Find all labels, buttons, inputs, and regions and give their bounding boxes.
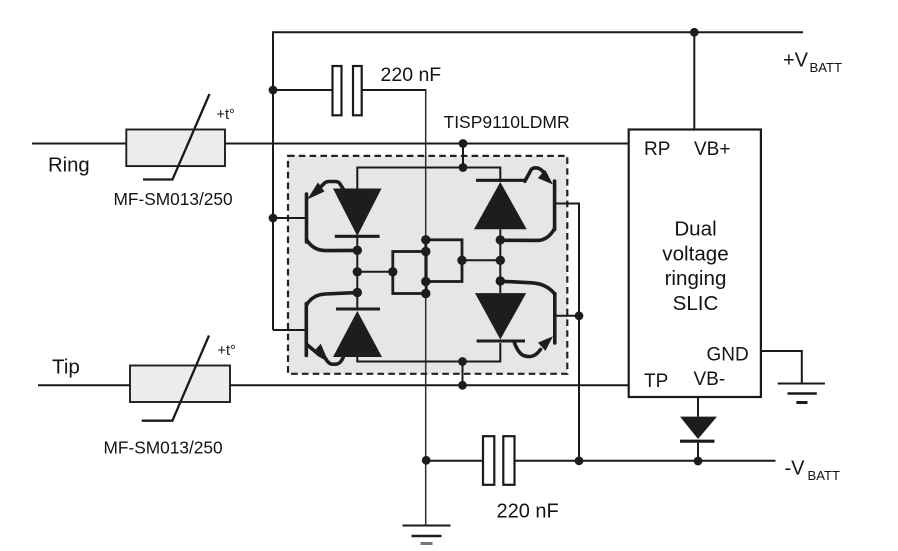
node: right stack gate: [496, 256, 505, 265]
wire: Tip line: [38, 384, 629, 386]
node: centre line a: [421, 235, 430, 244]
node: top rail / cap left: [269, 86, 278, 95]
svg-text:BATT: BATT: [810, 60, 843, 75]
wire: VB+ lead: [693, 32, 695, 129]
svg-text:Ring: Ring: [48, 155, 90, 177]
wire: gate link right: [462, 259, 500, 261]
wire: Ring line: [32, 143, 629, 145]
wire: ring-to-protector link: [462, 144, 464, 168]
svg-text:VB-: VB-: [694, 369, 726, 390]
node: rect B right: [457, 256, 466, 265]
svg-text:MF-SM013/250: MF-SM013/250: [104, 437, 223, 457]
svg-text:220 nF: 220 nF: [497, 501, 559, 523]
node: bottom bus / protector: [458, 357, 467, 366]
node: right branch / lower-right base feed: [575, 311, 584, 320]
thyristor Q4 (bottom-right): [475, 281, 555, 356]
wire: right internal stack: [499, 229, 501, 293]
svg-text:MF-SM013/250: MF-SM013/250: [114, 189, 233, 209]
svg-text:BATT: BATT: [808, 468, 841, 483]
thyristor Q2 (bottom-left): [306, 293, 382, 365]
wire: feed to lower-right base: [555, 315, 579, 317]
thyristor Q1 (top-left): [307, 182, 382, 251]
svg-text:voltage: voltage: [662, 242, 728, 265]
gate network rectangle B: [426, 240, 462, 282]
capacitor C1 220nF top (plates): [333, 66, 342, 115]
wire: left vertical branch x=273: [272, 31, 274, 330]
wire: -VBATT rail right segment: [515, 460, 776, 462]
node: right stack lower: [496, 276, 505, 285]
diode D1 (VB- clamp): [680, 417, 717, 461]
node: left stack upper: [353, 246, 362, 255]
svg-text:GND: GND: [707, 344, 749, 365]
wire: top capacitor left lead: [273, 89, 333, 91]
svg-text:+V: +V: [783, 50, 809, 72]
ground symbol (SLIC GND): [778, 384, 825, 403]
wire: gate link left: [357, 271, 393, 273]
node: left stack lower: [353, 288, 362, 297]
node: tip / protector: [458, 381, 467, 390]
wire: protector-to-tip link: [462, 362, 464, 386]
wire: -VBATT rail left segment: [427, 460, 484, 462]
node: right stack upper: [496, 235, 505, 244]
node: centre line b: [421, 247, 430, 256]
wire: feed to lower-left base: [273, 329, 305, 331]
node: ring / protector: [459, 139, 468, 148]
thermistor RT1 (Ring) MF-SM013/250: [126, 130, 225, 167]
gate network rectangle A: [393, 252, 426, 294]
svg-text:Tip: Tip: [52, 355, 80, 378]
node: top rail / VB+: [690, 28, 699, 37]
wire: internal bottom bus: [357, 343, 500, 362]
node: centre line d: [421, 289, 430, 298]
svg-text:SLIC: SLIC: [673, 292, 719, 315]
thyristor Q3 (top-right): [474, 168, 555, 241]
node: diode / -VBATT: [694, 457, 703, 466]
wire: centre column to ground (thin): [425, 90, 427, 526]
capacitor C2 220nF bottom (plates): [483, 436, 494, 485]
wire: internal top bus: [357, 168, 500, 189]
node: top bus / protector: [459, 163, 468, 172]
svg-text:-V: -V: [785, 458, 806, 480]
ground symbol (centre): [403, 526, 451, 544]
svg-text:TP: TP: [644, 371, 668, 392]
wire: top capacitor right lead: [362, 90, 426, 91]
wire: GND lead: [761, 351, 802, 383]
thermistor RT2 (Tip) MF-SM013/250: [130, 366, 230, 403]
node: left branch / upper base feed: [269, 214, 278, 223]
svg-text:+t°: +t°: [218, 343, 236, 359]
node: -VBATT / centre ground: [422, 456, 431, 465]
wire: +VBATT top rail: [273, 31, 803, 33]
wire: right branch x=579 from gates: [555, 204, 579, 461]
node: left stack gate: [353, 267, 362, 276]
wire: feed to upper-left base: [273, 217, 305, 219]
svg-text:220 nF: 220 nF: [381, 64, 442, 86]
TISP9110LDMR package outline (dashed grey box): [288, 156, 567, 374]
wire: VB- lead: [697, 398, 699, 417]
svg-text:+t°: +t°: [217, 107, 235, 123]
svg-text:ringing: ringing: [665, 267, 727, 290]
svg-text:TISP9110LDMR: TISP9110LDMR: [444, 112, 570, 132]
SLIC box: [629, 130, 761, 398]
node: centre line c: [421, 277, 430, 286]
svg-text:VB+: VB+: [694, 139, 730, 160]
svg-text:RP: RP: [644, 139, 670, 160]
svg-text:Dual: Dual: [674, 218, 716, 241]
node: right branch / -VBATT: [575, 456, 584, 465]
node: rect A left: [388, 267, 397, 276]
wire: left internal stack: [356, 236, 358, 309]
